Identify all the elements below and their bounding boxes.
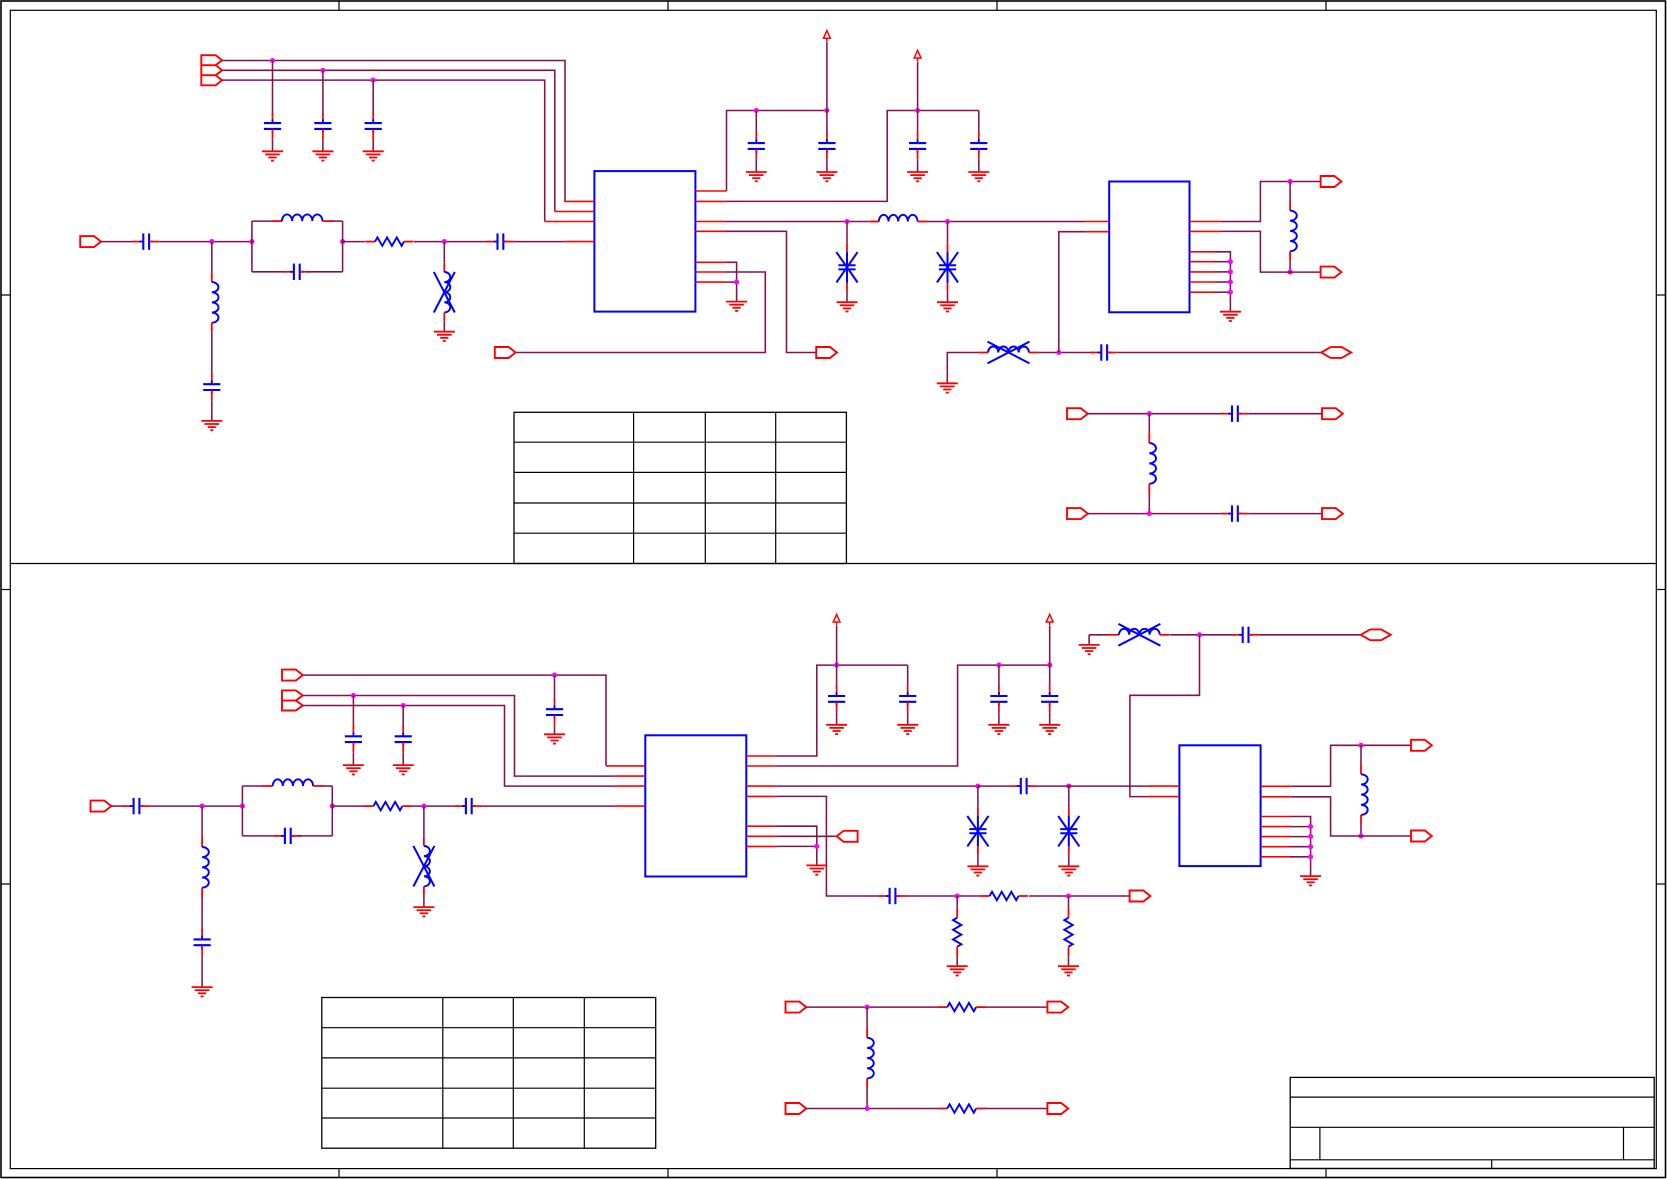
wire L12 top stem — [1360, 745, 1362, 764]
junction TVS D2 — [945, 219, 950, 224]
wire C24 to ground — [998, 713, 1000, 725]
pin U4-2 (left) — [1148, 796, 1179, 798]
ground R4 — [947, 966, 968, 975]
wire C27 to R3 — [906, 895, 980, 897]
junction node1 — [209, 239, 214, 244]
wire C15 tap — [554, 675, 556, 702]
ground D1 — [837, 302, 858, 311]
ground U3 pins — [806, 865, 827, 874]
wire C10 to ground — [917, 160, 919, 172]
wire U2 pin4 to P13 — [1220, 231, 1320, 272]
port P8 — [1067, 408, 1088, 419]
wire U2 gnd pin8 run — [1215, 281, 1230, 283]
pin U1-11 (right) — [695, 281, 725, 283]
ground C16 — [343, 765, 364, 774]
power arrow VCC4 — [1046, 614, 1053, 625]
ground C1 — [262, 151, 283, 160]
ground L2 — [434, 332, 455, 341]
ground D3 — [967, 866, 988, 875]
wire C23 tap — [907, 665, 909, 689]
wire L5 to junction — [1039, 352, 1094, 354]
wire U2 gnd pin5 run — [1215, 252, 1230, 312]
pin U4-7 (right) — [1261, 836, 1290, 838]
wire L12 bottom stem — [1360, 825, 1362, 836]
wire C23 to ground — [907, 713, 909, 725]
wire U4 pin4 to Q13 — [1292, 797, 1411, 836]
pin U3-4 (left) — [614, 805, 645, 807]
wire D3 junction to C26 — [978, 785, 1011, 787]
wire U3 pin11 gnd run — [776, 845, 817, 847]
capacitor C18 series — [123, 798, 150, 814]
TVS diode D4 — [1058, 807, 1079, 855]
TVS diode D3 — [967, 807, 988, 855]
capacitor C23 — [899, 685, 916, 712]
junction att right — [1066, 893, 1071, 898]
junction net B — [320, 68, 325, 73]
wire R4 tap — [956, 896, 958, 908]
filter U4 — [1179, 745, 1260, 866]
capacitor C24 — [990, 685, 1007, 712]
power arrow VCC3 — [833, 614, 840, 625]
pin U1-10 (right) — [695, 271, 725, 273]
wire C18 to node4 — [150, 805, 242, 807]
junction att left — [955, 893, 960, 898]
junction tank2 left — [240, 804, 245, 809]
junction U2 gnd d — [1228, 290, 1233, 295]
wire VCC2 stem — [917, 62, 919, 111]
wire R4 to ground — [956, 956, 958, 966]
inductor L4 — [869, 215, 928, 222]
port Q11 — [1047, 1103, 1068, 1114]
junction TVS D3 — [975, 784, 980, 789]
wire VCC4 stem — [1049, 626, 1051, 665]
wire node4 down — [201, 806, 203, 837]
wire C10 tap — [917, 111, 919, 137]
wire tank bottom left — [252, 271, 287, 273]
junction L7 top — [1147, 411, 1152, 416]
pin U2-1 (left) — [1084, 221, 1109, 223]
table page1 — [514, 412, 846, 563]
port P7 (bidir) — [1321, 347, 1351, 358]
inductor L3 — [212, 272, 219, 333]
junction tank right — [340, 239, 345, 244]
pin U2-2 (left) — [1086, 231, 1110, 233]
wire L4 to U2 — [928, 221, 1085, 223]
capacitor C19 (tank2 bottom) — [274, 828, 301, 844]
capacitor C15 — [546, 699, 563, 726]
pin U4-3 (right) — [1261, 785, 1292, 787]
wire VCC3 stem — [836, 626, 838, 665]
op-amp U1 (RF IC) — [594, 171, 695, 312]
capacitor C14 series — [1221, 505, 1248, 521]
wire U1 pin11 gnd run — [726, 281, 737, 283]
wire node6 to U4 pin2 — [1130, 635, 1200, 797]
capacitor C25 — [1041, 685, 1058, 712]
wire U4 gnd pin9 run — [1290, 856, 1311, 858]
wire C3 to ground — [372, 140, 374, 152]
wire D3 to ground — [977, 855, 979, 866]
wire L5 gnd corner — [947, 353, 978, 384]
junction net D — [552, 673, 557, 678]
wire U4 gnd pin8 run — [1290, 846, 1311, 848]
wire D2 tap — [947, 222, 949, 244]
pin U1-4 (left) — [564, 241, 594, 243]
wire U1 pin7 to L4 — [727, 221, 869, 223]
wire C7 to ground — [211, 401, 213, 421]
capacitor C8 — [748, 133, 765, 160]
wire tank2 top left — [242, 785, 264, 787]
resistor R4 — [953, 908, 961, 956]
wire L7 top stem — [1148, 414, 1150, 434]
pin U2-7 (right) — [1190, 271, 1216, 273]
pin U4-1 (left) — [1148, 785, 1179, 787]
wire R5 tap — [1068, 896, 1070, 908]
wire C8 to ground — [755, 160, 757, 172]
wire R7 to Q11 — [986, 1108, 1048, 1110]
wire L2 to ground — [443, 322, 445, 332]
capacitor C20 series — [455, 798, 482, 814]
junction L6 bottom — [1288, 270, 1293, 275]
ground C8 — [746, 172, 767, 181]
junction U2 gnd a — [1228, 259, 1233, 264]
junction node2 — [442, 239, 447, 244]
port Q6 (bidir) — [1361, 629, 1391, 640]
pin U4-9 (right) — [1261, 856, 1290, 858]
ground U2 pins — [1220, 312, 1241, 321]
junction net F — [401, 703, 406, 708]
ground U4 pins — [1300, 876, 1321, 885]
capacitor C11 — [970, 133, 987, 160]
inductor L12 — [1361, 764, 1368, 825]
pin U3-5 (right) — [746, 755, 776, 757]
wire node5 down — [423, 806, 425, 837]
junction U2 gnd c — [1228, 279, 1233, 284]
junction U4 gnd d — [1308, 854, 1313, 859]
wire L11 gnd stem — [1088, 635, 1090, 645]
wire C26 to U4 pin1 — [1037, 785, 1148, 787]
wire U2 gnd pin6 run — [1215, 261, 1230, 263]
wire C20 to U3 pin4 — [482, 805, 614, 807]
wire C22 to ground — [836, 713, 838, 725]
wire D3 tap — [977, 786, 979, 807]
wire C17 to ground — [402, 753, 404, 765]
wire C17 tap — [402, 706, 404, 730]
port J1 (top-left triple bundle) — [201, 55, 222, 85]
wire node3 to U2 pin — [1059, 232, 1086, 353]
wire U2 gnd pin9 run — [1215, 291, 1230, 293]
pin U3-8 (right) — [746, 795, 776, 797]
wire tank2 right vertical — [331, 786, 333, 836]
pin U4-6 (right) — [1261, 826, 1290, 828]
wire net F to U3 pin3 — [303, 706, 615, 787]
wire C16 to ground — [352, 753, 354, 765]
junction L13 bottom — [865, 1106, 870, 1111]
junction net E — [351, 693, 356, 698]
capacitor C3 — [365, 113, 382, 140]
wire L3 to C7 — [211, 333, 213, 377]
wire R5 to ground — [1068, 956, 1070, 966]
wire C11 tap — [978, 111, 980, 137]
wire C11 to ground — [978, 160, 980, 172]
capacitor C12 series — [1091, 344, 1118, 360]
port J3-B/C (joined double) — [282, 690, 303, 710]
filter U2 — [1109, 182, 1189, 313]
wire L9 to ground — [423, 896, 425, 908]
wire L7 bottom stem — [1148, 494, 1150, 514]
wire R2 to node5 — [412, 805, 459, 807]
wire C13 to P9 — [1249, 413, 1323, 415]
junction U4 gnd a — [1308, 824, 1313, 829]
junction tank2 right — [330, 804, 335, 809]
ground D2 — [937, 302, 958, 311]
pin U2-9 (right) — [1190, 291, 1216, 293]
pin U3-10 (right) — [746, 835, 776, 837]
power arrow VCC2 — [914, 50, 921, 61]
wire C28 to Q6 — [1259, 634, 1361, 636]
wire tank2 top right — [322, 785, 332, 787]
pin U1-1 (left) — [564, 200, 594, 202]
port RF input J4 — [91, 801, 112, 812]
ground C10 — [907, 172, 928, 181]
junction L12 top — [1358, 743, 1363, 748]
pin U1-2 (left) — [555, 211, 595, 213]
pin U3-2 (left) — [615, 775, 645, 777]
wire tank top left — [252, 220, 274, 222]
inductor L1 (tank top) — [272, 214, 332, 221]
capacitor C27 series — [879, 888, 906, 904]
pin U4-8 (right) — [1261, 846, 1290, 848]
pin U1-7 (right) — [695, 221, 726, 223]
ground C24 — [988, 725, 1009, 734]
ground L9 — [413, 907, 434, 916]
wire D1 tap — [846, 222, 848, 244]
wire tank bottom right — [307, 271, 343, 273]
junction L13 top — [865, 1005, 870, 1010]
port Q13 (out-) — [1411, 831, 1432, 842]
capacitor C28 series — [1232, 627, 1259, 643]
wire U1 pin9 gnd run — [726, 262, 737, 301]
capacitor C16 — [345, 726, 362, 753]
title block — [1290, 1077, 1654, 1168]
resistor R7 — [938, 1104, 986, 1112]
capacitor C21 — [194, 929, 211, 956]
wire net D to U3 pin1 — [303, 675, 606, 766]
port RF input J2 — [80, 236, 101, 247]
pin U2-8 (right) — [1190, 281, 1216, 283]
junction U2 gnd b — [1228, 269, 1233, 274]
pin U1-6 (right) — [695, 200, 726, 202]
wire net A to U1 pin1 — [222, 61, 565, 202]
wire tank2 to R2 — [332, 805, 364, 807]
ground C15 — [544, 734, 565, 743]
wire D1 to ground — [846, 291, 848, 302]
wire U3 pin8 run — [776, 796, 882, 896]
inductor L7 — [1149, 433, 1156, 494]
wire U3 pin5 to rail3 — [776, 665, 907, 756]
pin U2-6 (right) — [1190, 261, 1216, 263]
wire L13 bottom stem — [866, 1088, 868, 1108]
wire C25 to ground — [1049, 713, 1051, 725]
capacitor C1 — [264, 113, 281, 140]
port Q9 — [1047, 1002, 1068, 1013]
resistor R2 — [364, 802, 412, 810]
wire net C to U1 pin3 — [222, 80, 545, 221]
wire C2 to ground — [322, 140, 324, 152]
pin U3-3 (left) — [614, 785, 645, 787]
ground L11 — [1079, 645, 1100, 654]
ground C9 — [816, 172, 837, 181]
wire VCC1 stem — [826, 42, 828, 111]
wire C1 to ground — [272, 140, 274, 152]
capacitor C13 series — [1221, 406, 1248, 422]
port P10 — [1067, 508, 1088, 519]
page divider line — [10, 563, 1656, 565]
ground C22 — [826, 725, 847, 734]
wire R3 to Q7 — [1029, 895, 1130, 897]
wire U3 pin7 to D3 — [776, 785, 978, 787]
TVS diode D2 — [937, 243, 958, 291]
inductor L8 (tank2 top) — [263, 779, 323, 786]
ground C23 — [897, 725, 918, 734]
wire C15 to ground — [554, 726, 556, 735]
power arrow VCC1 — [824, 31, 831, 42]
ground D4 — [1058, 866, 1079, 875]
inductor L2 DNP (crossed) — [434, 263, 455, 321]
junction rail4 arrow — [1047, 663, 1052, 668]
wire C22 tap — [836, 665, 838, 689]
wire C9 to ground — [826, 160, 828, 172]
wire cap C2 tap — [322, 70, 324, 116]
junction net A — [270, 58, 275, 63]
junction TVS D4 — [1066, 784, 1071, 789]
capacitor C26 series — [1010, 778, 1037, 794]
wire U3 pin10 to Q5 — [776, 835, 836, 837]
port Q7 (IF out) — [1130, 891, 1151, 902]
wire P10 to C14 — [1088, 513, 1225, 515]
wire U4 gnd pin7 run — [1290, 836, 1311, 838]
resistor R5 — [1064, 908, 1072, 956]
pin U3-1 (left) — [606, 765, 645, 767]
junction U1 gnd pins — [734, 280, 739, 285]
wire U1 pin8 to P6 — [727, 231, 817, 352]
junction rail2 arrow — [915, 108, 920, 113]
wire P8 to C13 — [1088, 413, 1225, 415]
wire C8 tap — [755, 111, 757, 137]
wire L11 left — [1089, 634, 1109, 636]
wire U2 pin3 to P12 — [1220, 182, 1320, 222]
TVS diode D1 — [836, 243, 857, 291]
wire node2 down — [443, 242, 445, 263]
ground C3 — [363, 151, 384, 160]
junction rail1 C8 — [754, 108, 759, 113]
inductor L5 DNP (crossed) — [978, 342, 1039, 364]
capacitor C17 — [395, 726, 412, 753]
capacitor C7 — [203, 374, 220, 401]
capacitor C22 — [828, 685, 845, 712]
wire C6 to U1 pin4 — [514, 241, 564, 243]
port P6 (LO out) — [816, 347, 837, 358]
pin U4-5 (right) — [1261, 816, 1290, 818]
wire U3 pin6 to rail4 — [776, 665, 1049, 766]
wire D4 to ground — [1068, 855, 1070, 866]
junction L12 bottom — [1358, 833, 1363, 838]
junction rail3 arrow — [834, 663, 839, 668]
wire net B to U1 pin2 — [222, 70, 555, 211]
port J3-A — [282, 670, 303, 681]
pin U3-6 (right) — [746, 765, 776, 767]
wire L6 top stem — [1289, 182, 1291, 201]
junction U4 gnd c — [1308, 844, 1313, 849]
junction U3 gnd pins — [814, 844, 819, 849]
wire tank left vertical — [251, 221, 253, 272]
port Q8 — [786, 1002, 807, 1013]
pin U3-11 (right) — [746, 845, 776, 847]
capacitor C5 (tank bottom) — [283, 264, 310, 280]
pin U2-3 (right) — [1190, 221, 1221, 223]
wire L10 to C21 — [201, 898, 203, 933]
inductor L10 — [202, 837, 209, 898]
wire tank2 bottom left — [242, 835, 277, 837]
mixer U3 — [645, 735, 746, 876]
junction node3 — [1056, 350, 1061, 355]
capacitor C10 — [909, 133, 926, 160]
wire D2 to ground — [947, 291, 949, 302]
wire C24 tap — [998, 665, 1000, 689]
junction tank left — [249, 239, 254, 244]
wire U1 pin6 to rail2 — [727, 111, 979, 202]
junction net C — [371, 78, 376, 83]
wire R6 to Q9 — [986, 1006, 1048, 1008]
port P9 — [1322, 408, 1343, 419]
junction rail4 C24 — [996, 663, 1001, 668]
wire U4 gnd pin6 run — [1290, 826, 1311, 828]
port Q12 (out+) — [1411, 740, 1432, 751]
wire tank top right — [331, 220, 343, 222]
ground C21 — [192, 987, 213, 996]
wire cap C1 tap — [272, 61, 274, 117]
port Q5 (enable) — [837, 831, 858, 842]
port Q10 — [786, 1103, 807, 1114]
wire net E to U3 pin2 — [303, 696, 615, 777]
wire C9 tap — [826, 111, 828, 137]
wire cap C3 tap — [372, 80, 374, 116]
wire U1 pin10 to P5 — [516, 272, 766, 353]
pin U2-4 (right) — [1190, 230, 1221, 232]
wire Q8 to R6 — [806, 1006, 938, 1008]
port P12 (out+) — [1321, 176, 1342, 187]
pin U3-9 (right) — [746, 825, 776, 827]
table page2 — [322, 998, 656, 1149]
capacitor C2 — [314, 113, 331, 140]
inductor L9 DNP (crossed) — [413, 837, 434, 895]
pin U1-9 (right) — [695, 261, 725, 263]
wire D4 tap — [1068, 786, 1070, 807]
junction TVS D1 — [844, 219, 849, 224]
port P13 (out-) — [1321, 267, 1342, 278]
wire J4 to C18 — [111, 805, 126, 807]
pin U1-5 (right) — [695, 190, 726, 192]
capacitor C6 series — [487, 233, 514, 249]
wire tank right vertical — [342, 221, 344, 272]
wire C14 to P11 — [1249, 513, 1323, 515]
resistor R6 — [938, 1003, 986, 1011]
pin U3-7 (right) — [746, 785, 776, 787]
wire U4 gnd pin5 run — [1290, 817, 1311, 877]
wire R1 to node2 — [414, 241, 491, 243]
pin U1-8 (right) — [695, 230, 726, 232]
capacitor C9 — [818, 133, 835, 160]
ground C17 — [393, 765, 414, 774]
